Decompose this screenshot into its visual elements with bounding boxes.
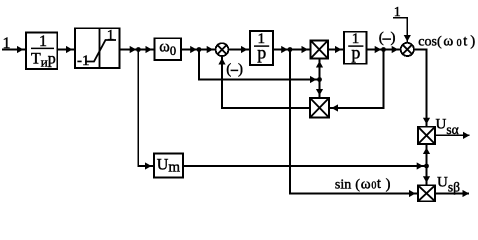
multiplier B8 cross	[311, 99, 328, 117]
block B1 integrator 1/(Ти p) box	[26, 32, 57, 69]
label B4 fraction bar	[254, 45, 269, 47]
node N3 junction dot	[288, 47, 293, 52]
arrow into B1	[17, 46, 24, 53]
saturation B2 curve	[85, 40, 116, 62]
summer S2 cross	[403, 45, 412, 54]
node N4 junction dot	[381, 47, 386, 52]
arrow up into B9 bottom	[423, 148, 430, 155]
svg-text:(: (	[379, 30, 384, 46]
svg-text:1: 1	[107, 27, 115, 43]
summer S1 cross	[218, 45, 227, 54]
arrow Usb output	[463, 190, 470, 197]
wire node N4 down then left into B8 right	[329, 50, 384, 109]
wire node N5 down to B8 top	[319, 80, 321, 99]
wire B10 output Usb	[435, 193, 469, 195]
arrow left into B8 right	[332, 104, 339, 111]
multiplier B9 cross	[419, 128, 434, 143]
svg-text:(: (	[226, 62, 231, 78]
arrow into B6	[335, 46, 342, 53]
block B2 saturation box	[75, 28, 120, 68]
wire Um output to node N6	[183, 165, 427, 167]
block B8 multiplier box	[310, 98, 329, 118]
block B6 integrator 1/p box	[344, 32, 367, 64]
wire node N3 down then right to B10 left (sin path)	[290, 50, 418, 194]
wire S1 to B4	[228, 49, 250, 51]
block B4 integrator 1/p box	[250, 31, 273, 65]
block B7 Um gain box	[154, 154, 183, 178]
wire node N2 down then right to node N5	[199, 50, 320, 80]
wire B6 to node N4 to summer S2	[367, 49, 401, 51]
arrow into B4	[241, 46, 248, 53]
block B9 multiplier Usa box	[418, 127, 435, 144]
arrow into S2 left	[392, 46, 399, 53]
svg-text:Um: Um	[157, 156, 181, 175]
svg-text:1: 1	[39, 33, 47, 50]
wire B4 to node N3 to B5	[273, 49, 311, 51]
arrow Usa output	[463, 132, 470, 139]
multiplier B10 cross	[419, 186, 434, 200]
wire B1 to B2	[57, 49, 75, 51]
wire input	[2, 49, 26, 51]
arrow into Um B7	[145, 162, 152, 169]
svg-text:): )	[238, 62, 243, 78]
label B6 fraction bar	[348, 45, 363, 47]
svg-text:p: p	[257, 43, 266, 63]
node N6 junction dot	[424, 164, 429, 169]
wire B3 to node N2 to summer S1	[181, 49, 216, 51]
arrow into node N2	[190, 46, 197, 53]
arrow down into B8 top	[316, 89, 323, 96]
wire node N6 up to B9 bottom	[426, 144, 428, 166]
svg-text:1: 1	[3, 35, 11, 52]
wire B2 to node N1 to B3	[120, 49, 155, 51]
arrow down into B9 top	[423, 118, 430, 125]
block B10 multiplier Usb box	[418, 185, 435, 201]
arrow up into S1 bottom	[218, 58, 225, 65]
multiplier B5 cross	[312, 41, 328, 57]
arrow into node N4	[375, 46, 382, 53]
arrow into B3	[146, 46, 153, 53]
wire B5 to B6	[328, 49, 344, 51]
wire node N6 down to B10 top	[426, 166, 428, 185]
arrow down into S2 top	[404, 35, 411, 42]
svg-text:1: 1	[394, 5, 401, 20]
arrow down into B10 top	[423, 176, 430, 183]
wire node N1 down and into Um block B7	[138, 50, 154, 167]
node N5 junction dot	[317, 77, 322, 82]
wire node N5 up to B5 bottom	[319, 59, 321, 80]
wire B8 output left then up into S1	[222, 56, 310, 108]
arrow into node N5	[310, 76, 317, 83]
arrow into B10 left (sin)	[409, 190, 416, 197]
svg-text:): )	[391, 30, 396, 46]
summer S1 circle	[216, 43, 229, 56]
arrow into B5 left	[302, 46, 309, 53]
wire B9 output Usa	[435, 134, 470, 136]
summer S2 circle	[401, 43, 414, 56]
arrow into node N6	[417, 162, 424, 169]
label B1 fraction bar	[31, 47, 54, 49]
node N1 junction dot	[136, 47, 141, 52]
svg-text:-1: -1	[77, 53, 90, 69]
arrow into node N3	[281, 46, 288, 53]
svg-text:p: p	[351, 43, 360, 63]
block B5 multiplier box	[311, 40, 329, 58]
arrow into B2	[66, 46, 73, 53]
block B3 omega0 gain box	[155, 38, 182, 60]
svg-text:cos(ω0t): cos(ω0t)	[418, 33, 475, 49]
wire constant 1 into S2 top	[393, 18, 407, 43]
arrow into S1 left	[207, 46, 214, 53]
arrow into node N1	[130, 46, 137, 53]
arrow up into B5 bottom	[316, 61, 323, 68]
wire S2 output to corner and down to B9	[414, 50, 427, 127]
saturation B2 vertical axis	[99, 28, 101, 68]
node N2 junction dot	[197, 47, 202, 52]
